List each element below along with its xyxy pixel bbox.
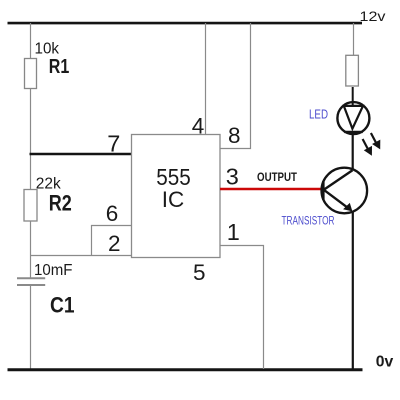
svg-text:7: 7 [107,131,120,157]
resistor (LED series, unlabeled) [346,55,359,86]
capacitor C1 [17,278,45,285]
svg-text:10mF: 10mF [34,262,73,279]
wire junction to pins 2 and 6 [30,255,132,257]
wire R1 to pin7 junction [30,89,32,189]
svg-text:3: 3 [226,164,239,190]
svg-text:5: 5 [193,260,206,285]
svg-text:2: 2 [108,231,121,256]
svg-text:4: 4 [192,113,205,138]
wire LED to transistor [352,132,354,169]
transistor Q1 [322,168,368,214]
svg-text:6: 6 [106,201,119,226]
wire pin 7 [30,153,132,156]
wire R2 to C1 [30,221,32,278]
LED light arrow 2 [371,133,380,149]
resistor R2 [24,190,37,222]
op-amp U1 555 IC box [132,135,221,258]
svg-text:OUTPUT: OUTPUT [257,170,298,184]
svg-text:555: 555 [156,164,191,190]
wire resistor to LED [352,87,354,107]
svg-text:C1: C1 [50,293,75,318]
svg-text:12v: 12v [360,8,386,24]
svg-text:R2: R2 [49,190,72,215]
svg-text:1: 1 [227,219,240,245]
LED light arrow 1 [363,139,372,156]
LED D1 [337,102,369,134]
svg-text:0v: 0v [376,354,394,371]
wire C1 to 0v rail [30,286,32,369]
wire pin 6 step [92,226,132,256]
resistor R1 [25,59,37,89]
wire top 12v rail [8,22,363,25]
svg-text:8: 8 [228,123,241,148]
svg-text:LED: LED [309,107,328,122]
wire pin 1 [220,246,264,370]
wire pin 4 [205,23,207,135]
wire 12v rail to series resistor [353,23,355,56]
wire pin 8 [220,23,251,149]
svg-text:TRANSISTOR: TRANSISTOR [282,216,335,228]
wire pin 3 output (red) [220,188,325,191]
wire transistor emitter to 0v rail [352,211,354,369]
wire bottom 0v rail [8,368,363,371]
svg-text:IC: IC [162,187,185,212]
svg-text:R1: R1 [49,56,70,78]
wire top rail to R1 [30,23,32,58]
